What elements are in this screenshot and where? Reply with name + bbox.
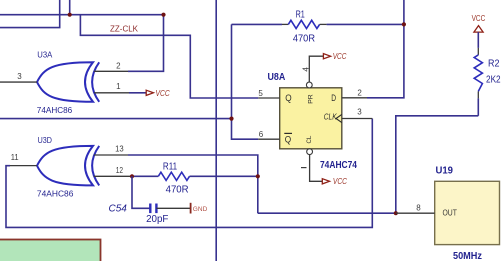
ground GND symbol (191, 203, 208, 214)
svg-text:U3A: U3A (37, 50, 52, 60)
svg-text:C54: C54 (109, 204, 128, 215)
pin 8 wire of U19 (396, 212, 435, 214)
svg-text:20pF: 20pF (146, 214, 168, 225)
pin 6 stub of U8A (258, 138, 280, 140)
power VCC arrow at U8A pin4 (323, 51, 347, 61)
wire long horizontal at y=118.6 to junction (0, 118, 232, 120)
wire from R1 left end down to U8A pin6 (232, 24, 259, 139)
svg-text:R2: R2 (488, 59, 500, 70)
pin 1 stub of U3A (94, 92, 129, 94)
svg-text:R11: R11 (163, 162, 178, 173)
svg-text:CLK: CLK (324, 112, 337, 122)
junction dot B (161, 13, 165, 17)
wire vertical stub up from junction A (69, 0, 71, 15)
svg-text:2K2: 2K2 (486, 75, 501, 86)
svg-text:U8A: U8A (268, 71, 286, 83)
pin 11 stub of U3D (10, 165, 37, 167)
svg-text:U19: U19 (436, 166, 454, 177)
power VCC arrow at U8A pin1 (322, 176, 347, 186)
svg-text:R1: R1 (296, 10, 306, 21)
svg-text:Q: Q (285, 93, 291, 104)
svg-text:CL: CL (306, 135, 313, 143)
svg-text:2: 2 (116, 61, 121, 70)
svg-text:74AHC86: 74AHC86 (37, 105, 73, 115)
pin 3 wire of U3A (0, 81, 37, 83)
wire ZZ-CLK run down from A then right then down to U8A pin5 (80, 15, 258, 98)
svg-text:GND: GND (193, 206, 208, 213)
pin 1 of U8A with bubble (301, 149, 322, 182)
pin 4 of U8A with bubble (302, 56, 324, 88)
junction dot C (229, 117, 233, 121)
svg-text:1: 1 (116, 82, 121, 91)
svg-text:D: D (331, 93, 336, 104)
svg-text:11: 11 (11, 153, 19, 162)
junction dot E at C54 tap (130, 174, 134, 178)
wire pin11 to CLK bottom run (6, 119, 372, 228)
resistor R11 (158, 172, 257, 180)
wire drop from junction B to U3A pin2 (128, 15, 164, 72)
svg-text:3: 3 (357, 108, 362, 117)
wire net top horizontal B with stub up (0, 0, 60, 28)
green sheet block bottom left (0, 240, 101, 261)
wire pin13 over to vertical join down to U19 net (128, 155, 258, 213)
flip-flop U8A 74AHC74 body (280, 88, 342, 149)
svg-text:VCC: VCC (156, 88, 171, 98)
pin 2 stub of U8A D input (342, 97, 367, 99)
junction dot G at U19 pin8 (394, 211, 398, 215)
XOR gate U3D 74AHC86 body (37, 146, 99, 186)
svg-text:ZZ-CLK: ZZ-CLK (110, 24, 139, 33)
pin 3 stub of U8A CLK input (342, 118, 373, 120)
power VCC up arrow top right (472, 14, 486, 32)
wire U19 output node left to XOR net vertical (258, 212, 396, 214)
svg-text:OUT: OUT (443, 209, 457, 218)
svg-text:8: 8 (416, 203, 421, 212)
resistor R2 (474, 32, 482, 116)
junction dot A (68, 13, 72, 17)
svg-text:VCC: VCC (333, 176, 348, 186)
pin 5 stub of U8A (258, 97, 280, 99)
wire pin1 to VCC (129, 92, 146, 94)
svg-text:13: 13 (115, 145, 124, 154)
junction dot F at R11 right (256, 174, 260, 178)
power VCC arrow at U3A pin1 (146, 88, 170, 98)
svg-text:2: 2 (357, 89, 362, 98)
svg-text:50MHz: 50MHz (453, 251, 482, 261)
svg-text:6: 6 (259, 130, 264, 139)
pin 12 stub of U3D (94, 175, 132, 177)
svg-text:5: 5 (258, 89, 263, 98)
resistor R1 (232, 20, 404, 28)
wire net top horizontal A (0, 14, 164, 16)
wire pin12 junction to R11 (132, 175, 158, 177)
label Qbar inside U8A (284, 133, 292, 145)
capacitor C54 (132, 176, 190, 213)
svg-text:74AHC86: 74AHC86 (37, 189, 74, 199)
svg-text:U3D: U3D (38, 135, 52, 145)
svg-text:VCC: VCC (333, 51, 347, 61)
svg-text:PR: PR (308, 94, 315, 104)
svg-text:12: 12 (116, 166, 124, 175)
svg-text:470R: 470R (293, 34, 315, 45)
svg-text:VCC: VCC (472, 14, 486, 23)
XOR gate U3A 74AHC86 body (37, 62, 99, 102)
oscillator U19 body (435, 181, 500, 244)
wire from R2 bottom to U19 output node (396, 116, 479, 213)
svg-text:4: 4 (302, 67, 311, 72)
svg-text:Q: Q (285, 135, 291, 146)
junction dot D (402, 22, 406, 26)
wire from R1 right end down to U8A pin D (367, 0, 404, 98)
clock input wedge on U8A right edge (336, 114, 342, 122)
svg-text:3: 3 (17, 72, 22, 81)
pin 13 stub of U3D (94, 154, 128, 156)
svg-text:74AHC74: 74AHC74 (320, 160, 357, 171)
vertical bus wire x=216 full height (215, 0, 217, 261)
pin 2 stub of U3A (94, 70, 128, 72)
svg-text:470R: 470R (166, 185, 189, 196)
